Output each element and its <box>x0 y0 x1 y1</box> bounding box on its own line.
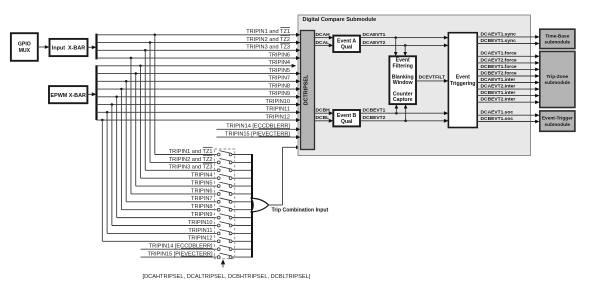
junction and vertical for TRIPIN10 <box>111 103 114 106</box>
wire DCAEVT1.inter <box>477 82 537 84</box>
wire DCAEVT1 <box>360 37 446 39</box>
wire trip row TRIPIN7 <box>97 80 297 82</box>
lower stub for TRIPIN15 [PIEVECTERR] <box>141 256 217 258</box>
lower stub for TRIPIN14 [ECCDBLERR] <box>141 248 217 250</box>
wire DCAEVT2.force <box>477 62 537 64</box>
svg-text:Event-Trigger: Event-Trigger <box>542 116 573 122</box>
trip collector bus <box>251 154 253 258</box>
svg-text:DCTRIPSEL: DCTRIPSEL <box>304 74 310 105</box>
wire DCAEVT1.force <box>477 55 537 57</box>
svg-text:DCBEVT2: DCBEVT2 <box>363 115 386 121</box>
svg-text:TRIPIN10: TRIPIN10 <box>265 99 290 105</box>
wire DCAEVT2.inter <box>477 88 537 90</box>
wire trip row TRIPIN4 <box>97 65 293 67</box>
wire DCAEVT1.sync <box>477 36 537 38</box>
wire trip row TRIPIN3 and TZ3 <box>97 49 297 51</box>
svg-text:DCBEVT1.soc: DCBEVT1.soc <box>481 116 514 122</box>
svg-text:Filtering: Filtering <box>392 63 412 69</box>
input X-BAR bus <box>95 34 97 60</box>
svg-text:TRIPIN9: TRIPIN9 <box>269 91 290 97</box>
svg-text:Event A: Event A <box>337 39 356 45</box>
switch for TRIPIN10 <box>217 224 220 227</box>
svg-text:TRIPIN12: TRIPIN12 <box>265 114 290 120</box>
svg-text:DCBL: DCBL <box>316 115 330 121</box>
wire DCBL <box>315 120 331 122</box>
switch for TRIPIN6 <box>217 193 220 196</box>
switch for TRIPIN15 [PIEVECTERR] <box>217 256 220 259</box>
svg-text:TRIPIN6: TRIPIN6 <box>269 52 290 58</box>
switch for TRIPIN9 <box>217 216 220 219</box>
rise DCBEVT1 to Event Filtering <box>395 112 398 115</box>
switch for TRIPIN14 [ECCDBLERR] <box>217 248 220 251</box>
svg-text:submodule: submodule <box>545 40 571 46</box>
dashed trip-select box <box>215 149 235 259</box>
switch for TRIPIN1 and TZ1 <box>217 153 220 156</box>
wire trip row TRIPIN14 [ECCDBLERR] <box>217 128 297 130</box>
block DCTRIPSEL <box>301 31 315 150</box>
wire GPIO MUX to Input X-BAR <box>38 46 46 48</box>
wire OR gate to DCTRIPSEL <box>269 204 283 206</box>
svg-text:TRIPIN15 [PIEVECTERR]: TRIPIN15 [PIEVECTERR] <box>225 132 290 138</box>
svg-text:TRIPIN4: TRIPIN4 <box>191 173 212 179</box>
wire trip row TRIPIN15 [PIEVECTERR] <box>217 136 297 138</box>
svg-text:DCAEVT1.sync: DCAEVT1.sync <box>481 31 517 37</box>
svg-text:Trip-Zone: Trip-Zone <box>546 74 568 80</box>
ePWM X-BAR bus <box>95 65 97 120</box>
svg-text:Event: Event <box>456 75 470 81</box>
OR gate trip combination <box>251 198 268 212</box>
svg-text:submodule: submodule <box>545 122 571 128</box>
Digital Compare Submodule container <box>298 15 531 156</box>
wire DCBEVT1.force <box>477 68 537 70</box>
svg-text:TRIPIN12: TRIPIN12 <box>188 236 213 242</box>
svg-text:Qual: Qual <box>341 45 353 51</box>
wire DCAEVT2 <box>360 44 446 46</box>
svg-text:TRIPIN6: TRIPIN6 <box>191 188 212 194</box>
svg-text:Digital Compare Submodule: Digital Compare Submodule <box>303 17 377 23</box>
svg-text:TRIPIN11: TRIPIN11 <box>266 107 290 113</box>
junction and vertical for TRIPIN4 <box>139 65 142 68</box>
junction and vertical for TRIPIN8 <box>120 88 123 91</box>
svg-text:TRIPIN10: TRIPIN10 <box>188 220 213 226</box>
block Event B Qual <box>333 110 360 126</box>
svg-text:[DCAHTRIPSEL, DCALTRIPSEL, DCB: [DCAHTRIPSEL, DCALTRIPSEL, DCBHTRIPSEL, … <box>143 274 311 280</box>
wire DCAH <box>315 37 331 39</box>
svg-text:DCBEVT2.inter: DCBEVT2.inter <box>481 97 516 103</box>
junction and vertical for TRIPIN12 <box>101 119 104 122</box>
junction and vertical for TRIPIN3 and TZ3 <box>144 49 147 52</box>
svg-text:Event B: Event B <box>337 113 357 119</box>
wire Input X-BAR to input bus <box>88 46 94 48</box>
svg-text:Capture: Capture <box>393 97 413 103</box>
wire DCBEVT2.inter <box>477 101 537 103</box>
block Event-Trigger submodule <box>540 111 575 131</box>
wire DCBH <box>315 112 331 114</box>
wire trip row TRIPIN11 <box>97 111 297 113</box>
svg-text:TRIPIN4: TRIPIN4 <box>269 60 290 66</box>
block Event A Qual <box>333 36 360 52</box>
svg-text:DCAEVT2.inter: DCAEVT2.inter <box>481 84 516 90</box>
junction and vertical for TRIPIN5 <box>134 72 137 75</box>
svg-text:DCAEVT2: DCAEVT2 <box>363 40 386 46</box>
svg-text:TRIPIN8: TRIPIN8 <box>269 83 290 89</box>
wire trip row TRIPIN10 <box>97 104 297 106</box>
wire trip row TRIPIN12 <box>97 119 297 121</box>
wire DCBEVT2.force <box>477 75 537 77</box>
drop DCAEVT2 to Event Filtering <box>404 44 407 47</box>
svg-text:Trip Combination Input: Trip Combination Input <box>272 207 329 213</box>
wire trip row TRIPIN5 <box>97 73 297 75</box>
block EPWM X-BAR <box>49 86 87 103</box>
block Time-Base submodule <box>540 29 575 48</box>
wire DCBEVT2 <box>360 120 446 122</box>
svg-text:TRIPIN7: TRIPIN7 <box>191 196 212 202</box>
arrowheads into DCTRIPSEL <box>296 33 301 37</box>
svg-text:TRIPIN3 and TZ3: TRIPIN3 and TZ3 <box>169 165 213 171</box>
svg-text:TRIPIN15 [PIEVECTERR]: TRIPIN15 [PIEVECTERR] <box>148 251 213 257</box>
block Event Filtering <box>389 56 416 104</box>
switch for TRIPIN3 and TZ3 <box>217 169 220 172</box>
svg-text:TRIPIN5: TRIPIN5 <box>191 180 212 186</box>
wire DCBEVT1.sync <box>477 43 537 45</box>
svg-text:DCAEVT1.inter: DCAEVT1.inter <box>481 77 516 83</box>
svg-text:TRIPIN1 and TZ1: TRIPIN1 and TZ1 <box>246 29 290 35</box>
svg-text:TRIPIN3 and TZ3: TRIPIN3 and TZ3 <box>246 45 290 51</box>
svg-text:MUX: MUX <box>19 48 31 54</box>
switch for TRIPIN4 <box>217 177 220 180</box>
svg-text:submodule: submodule <box>545 80 571 86</box>
junction and vertical for TRIPIN11 <box>106 111 109 114</box>
wire DCBEVT1.inter <box>477 95 537 97</box>
svg-text:Input X-BAR: Input X-BAR <box>52 46 85 52</box>
rise DCBEVT2 to Event Filtering <box>404 120 407 123</box>
svg-text:DCAEVT2.force: DCAEVT2.force <box>481 57 517 63</box>
svg-text:TRIPIN7: TRIPIN7 <box>269 76 290 82</box>
wire trip row TRIPIN9 <box>97 96 297 98</box>
svg-text:DCBEVT1.sync: DCBEVT1.sync <box>481 38 517 44</box>
svg-text:DCAEVT1: DCAEVT1 <box>363 32 386 38</box>
svg-text:Time-Base: Time-Base <box>545 33 570 39</box>
svg-text:TRIPIN14 [ECCDBLERR]: TRIPIN14 [ECCDBLERR] <box>149 244 213 250</box>
svg-text:TRIPIN2 and TZ2: TRIPIN2 and TZ2 <box>169 157 213 163</box>
block GPIO MUX <box>11 33 38 61</box>
switch for TRIPIN11 <box>217 232 220 235</box>
svg-text:DCBEVT2.force: DCBEVT2.force <box>481 70 517 76</box>
switch for TRIPIN5 <box>217 185 220 188</box>
junction and vertical for TRIPIN2 and TZ2 <box>149 41 152 44</box>
svg-text:DCBEVT1.inter: DCBEVT1.inter <box>481 90 516 96</box>
wire DCBEVT1 <box>360 112 446 114</box>
junction and vertical for TRIPIN1 and TZ1 <box>154 34 157 37</box>
block Event Triggering <box>448 33 477 128</box>
svg-text:DCAEVT1.force: DCAEVT1.force <box>481 51 517 57</box>
block Trip-Zone submodule <box>540 51 575 107</box>
svg-text:DCBEVT1: DCBEVT1 <box>363 108 386 114</box>
svg-text:TRIPIN11: TRIPIN11 <box>188 228 212 234</box>
svg-text:TRIPIN1 and TZ1: TRIPIN1 and TZ1 <box>169 149 213 155</box>
switch for TRIPIN12 <box>217 240 220 243</box>
wire DCAL <box>315 44 331 46</box>
svg-text:DCBEVT1.force: DCBEVT1.force <box>481 64 517 70</box>
junction and vertical for TRIPIN9 <box>115 96 118 99</box>
svg-text:TRIPIN5: TRIPIN5 <box>269 68 290 74</box>
svg-text:TRIPIN2 and TZ2: TRIPIN2 and TZ2 <box>246 37 290 43</box>
wire trip row TRIPIN1 and TZ1 <box>97 34 297 36</box>
wire trip row TRIPIN2 and TZ2 <box>97 42 297 44</box>
svg-text:EPWM X-BAR: EPWM X-BAR <box>51 93 86 99</box>
switch for TRIPIN8 <box>217 208 220 211</box>
svg-text:Window: Window <box>393 80 414 86</box>
wire DCBEVT1.soc <box>477 121 537 123</box>
wire trip row TRIPIN8 <box>97 88 297 90</box>
select control arrow <box>221 259 225 264</box>
svg-text:DCAH: DCAH <box>316 32 331 38</box>
svg-text:GPIO: GPIO <box>18 42 31 48</box>
svg-text:DCAL: DCAL <box>316 40 330 46</box>
switch for TRIPIN7 <box>217 200 220 203</box>
junction and vertical for TRIPIN6 <box>130 57 133 60</box>
svg-text:DCAEVT1.soc: DCAEVT1.soc <box>481 110 514 116</box>
drop DCAEVT1 to Event Filtering <box>394 36 397 39</box>
wire DCEVTFILT <box>416 80 446 82</box>
wire trip row TRIPIN6 <box>97 57 297 59</box>
svg-text:TRIPIN9: TRIPIN9 <box>191 212 212 218</box>
svg-text:TRIPIN14 [ECCDBLERR]: TRIPIN14 [ECCDBLERR] <box>226 124 290 130</box>
svg-text:Qual: Qual <box>341 119 353 125</box>
wire DCAEVT1.soc <box>477 114 537 116</box>
svg-text:DCEVTFILT: DCEVTFILT <box>419 75 446 81</box>
junction and vertical for TRIPIN7 <box>125 80 128 83</box>
switch for TRIPIN2 and TZ2 <box>217 161 220 164</box>
block Input X-BAR <box>50 39 88 56</box>
wire EPWM X-BAR to ePWM bus <box>87 93 93 95</box>
svg-text:TRIPIN8: TRIPIN8 <box>191 204 212 210</box>
svg-text:Triggering: Triggering <box>450 81 475 87</box>
svg-text:DCBH: DCBH <box>316 108 331 114</box>
